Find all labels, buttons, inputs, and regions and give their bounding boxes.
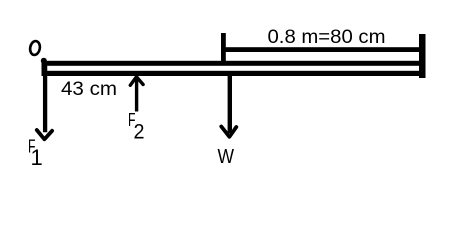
beam left end cap at pivot O xyxy=(42,61,47,76)
svg-text:W: W xyxy=(218,145,235,168)
svg-text:0.8 m=80 cm: 0.8 m=80 cm xyxy=(268,26,386,48)
beam top edge xyxy=(42,61,425,66)
svg-text:1: 1 xyxy=(31,145,43,170)
force arrow F2 (upward, 43 cm from O) xyxy=(130,77,143,112)
svg-text:43 cm: 43 cm xyxy=(61,79,117,100)
left dimension tick xyxy=(221,33,226,61)
beam right end cap merged with right dimension tick xyxy=(419,34,426,78)
beam bottom edge xyxy=(42,71,425,76)
label O xyxy=(29,40,41,55)
force arrow F1 (downward at left end) xyxy=(37,62,52,139)
dimension line for 0.8 m span xyxy=(221,47,425,52)
svg-text:2: 2 xyxy=(134,120,145,143)
pivot dot at O xyxy=(41,58,47,64)
weight arrow W (downward at centre of 0.8 m span) xyxy=(221,76,236,137)
